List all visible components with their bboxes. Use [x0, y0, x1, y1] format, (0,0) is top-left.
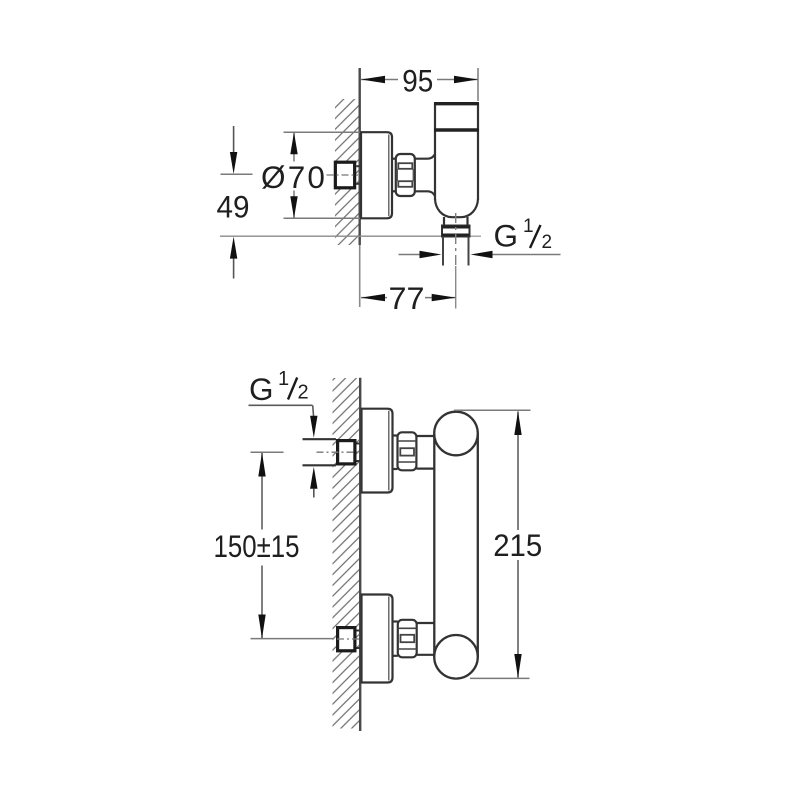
shower bar tube (bottom view)	[434, 434, 478, 657]
lower pipe flange to nut (bottom view)	[393, 622, 398, 656]
union square lower (bottom view)	[338, 628, 361, 651]
dimension 215 extension lines (bottom view)	[454, 410, 531, 678]
centerline upper connection (bottom view)	[317, 451, 360, 453]
svg-text:215: 215	[493, 527, 542, 563]
lower pipe nut to bar (bottom view)	[417, 623, 435, 655]
wall hatch (bottom view)	[333, 378, 360, 729]
dimension D70 line + arrows	[161, 132, 298, 218]
dimension G1/2 line (top view)	[399, 251, 561, 258]
outlet centerline (top view)	[455, 213, 457, 309]
dimension 95 line	[361, 76, 478, 83]
svg-text:G: G	[494, 218, 519, 254]
svg-text:Ø70: Ø70	[261, 159, 327, 195]
centerline lower connection (bottom view)	[337, 638, 360, 640]
union nut (top view)	[392, 154, 415, 196]
dimension G1/2 arrows (bottom view)	[310, 416, 317, 498]
shower bar bottom sphere (bottom view)	[434, 635, 478, 679]
dimension 49 reference line + up arrow	[220, 236, 481, 278]
svg-text:49: 49	[217, 189, 250, 225]
union nut lower (bottom view)	[398, 620, 417, 658]
wall hatch (top view)	[335, 99, 360, 245]
svg-text:1: 1	[523, 216, 534, 237]
valve body (top view)	[434, 103, 479, 217]
dimension D70 extension lines	[284, 132, 361, 218]
dimension 215 line + arrows (bottom view)	[514, 411, 521, 678]
centerline through square (top view)	[327, 174, 359, 176]
escutcheon flange upper (bottom view)	[362, 409, 393, 493]
svg-text:1: 1	[278, 368, 289, 390]
svg-text:95: 95	[402, 63, 433, 99]
upper pipe nut to bar (bottom view)	[416, 436, 434, 469]
svg-text:150±15: 150±15	[214, 528, 300, 564]
shower bar top sphere (bottom view)	[434, 412, 478, 456]
svg-text:2: 2	[542, 232, 553, 253]
wall face line (top view)	[359, 68, 361, 307]
svg-text:77: 77	[389, 280, 425, 316]
outlet tube G1/2 (top view)	[443, 237, 469, 266]
wall face line (bottom view)	[359, 378, 361, 731]
upper pipe flange to nut (bottom view)	[393, 436, 398, 470]
outlet backnut (top view)	[442, 226, 470, 237]
dimension 49 upper tick + down arrow	[221, 126, 253, 174]
dimension 95 extension line (right)	[477, 68, 479, 101]
union square upper (bottom view)	[338, 441, 361, 464]
supply stub upper (bottom view)	[303, 439, 337, 465]
dimension 150 line + arrows (bottom view)	[258, 453, 265, 639]
union nut upper (bottom view)	[398, 432, 417, 470]
svg-text:2: 2	[298, 382, 309, 404]
outlet neck (top view)	[444, 217, 468, 226]
leader G1/2 (bottom view)	[249, 405, 314, 417]
label G1/2 (bottom view)	[249, 368, 309, 407]
svg-text:G: G	[249, 371, 274, 407]
connecting pipe nut to body (top view)	[415, 155, 435, 196]
label G1/2 (top view)	[494, 216, 553, 254]
concealed union square (top view)	[335, 162, 359, 188]
dimension 150 extension lines (bottom view)	[251, 452, 335, 638]
dimension 77 line	[361, 294, 456, 301]
escutcheon flange lower (bottom view)	[362, 595, 393, 683]
escutcheon flange (top view)	[361, 132, 392, 218]
